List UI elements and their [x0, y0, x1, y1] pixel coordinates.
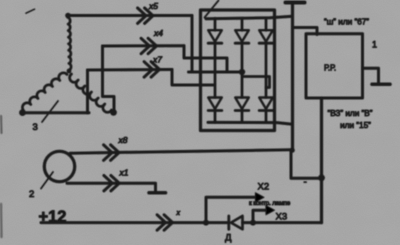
wire x4 vertical to phase C end: [103, 46, 115, 111]
wire VZ terminal vertical: [320, 98, 323, 223]
wire star baseline from phase B end: [23, 111, 90, 114]
wire drop to VZ junction: [291, 150, 322, 178]
wire rectifier negative bottom bus: [208, 122, 293, 124]
voltage regulator box: [306, 34, 363, 98]
wire bottom stem x=242: [241, 111, 244, 123]
svg-text:x: x: [176, 210, 181, 217]
terminal bar at top (output): [286, 1, 305, 5]
connector x5 chevrons: [138, 8, 146, 23]
wire x5 vertical drop: [191, 16, 194, 73]
wire x5 horizontal from stator top: [68, 14, 192, 17]
arrow X2: [255, 193, 264, 202]
diode VD bottom (column x=242): [235, 98, 249, 109]
wire x4 horizontal: [103, 44, 185, 47]
wire rectifier positive top bus: [206, 16, 293, 19]
svg-text:3: 3: [33, 122, 38, 133]
svg-text:к контр. лампе: к контр. лампе: [249, 200, 291, 207]
connector x chevrons on +12 rail: [157, 215, 165, 230]
node phase B end terminal: [19, 109, 26, 116]
svg-text:x5: x5: [148, 1, 158, 11]
node VZ junction: [318, 174, 325, 181]
svg-text:Р.Р.: Р.Р.: [324, 64, 336, 73]
node phase C end terminal: [110, 109, 117, 116]
diode VD top (column x=266): [259, 30, 273, 41]
stator winding phase A (top coil): [68, 18, 71, 71]
connector x7 chevrons: [144, 62, 152, 77]
svg-text:“ВЗ” или “В”: “ВЗ” или “В”: [328, 109, 373, 118]
node stator top junction: [65, 13, 71, 19]
svg-text:x8: x8: [118, 135, 128, 145]
label 2 leader: [41, 172, 53, 189]
diode VD bottom (column x=215): [208, 98, 222, 109]
wire X3 branch: [253, 210, 267, 222]
svg-text:“ш” или “67”: “ш” или “67”: [324, 18, 369, 27]
wire link to right diode column: [243, 77, 270, 88]
wire x1 from rotor to ground: [67, 183, 156, 192]
svg-text:Д: Д: [225, 233, 232, 244]
node x8 / Sh junction: [290, 148, 295, 153]
svg-text:2: 2: [29, 189, 34, 200]
wire diode column x=215: [214, 43, 217, 97]
wire x4 staircase to rectifier: [184, 46, 227, 72]
node X2 branch junction: [203, 220, 209, 226]
stator winding phase B (left coil): [22, 73, 67, 111]
wire top bus stub at x=266: [265, 18, 268, 30]
ground symbol (x1): [149, 191, 166, 195]
wire regulator ground stub: [363, 68, 379, 83]
wire main vertical bus: [291, 3, 294, 151]
wire x7 riser from star baseline: [86, 70, 89, 113]
svg-text:x4: x4: [153, 28, 163, 38]
svg-text:X3: X3: [276, 212, 288, 223]
diode D triangle: [231, 216, 243, 229]
svg-text:X2: X2: [258, 182, 270, 193]
rotor (field winding) circle: [44, 151, 74, 181]
diode VD top (column x=242): [235, 30, 249, 41]
rectifier leader slash: [205, 1, 219, 18]
wire diode column x=242: [241, 43, 244, 97]
stray pen mark top-left: [26, 9, 35, 13]
svg-text:1: 1: [372, 40, 377, 50]
svg-text:x1: x1: [119, 168, 129, 178]
wire +12 rail left: [41, 221, 229, 224]
wire phase bus into rectifier (to middle diode column): [189, 71, 243, 74]
diode VD top (column x=215): [208, 30, 222, 41]
label 3 leader slash: [42, 101, 58, 122]
wire X2 branch: [206, 197, 257, 222]
wire top bus stub at x=242: [241, 18, 244, 30]
arrow X3: [266, 206, 275, 215]
diode VD bottom (column x=266): [259, 98, 273, 109]
wire top bus stub at x=215: [214, 18, 217, 30]
connector x4 chevrons: [141, 38, 149, 53]
wire bottom stem x=215: [214, 111, 217, 123]
svg-text:x7: x7: [152, 55, 162, 65]
ground symbol (regulator): [372, 83, 390, 87]
svg-text:-: -: [304, 177, 307, 188]
rectifier block outline: [201, 10, 275, 131]
connector x8 chevrons: [104, 145, 112, 160]
node X3 branch junction: [250, 220, 256, 226]
svg-text:или “15”: или “15”: [340, 121, 371, 130]
diode D cathode bar: [227, 216, 230, 229]
wire branch to regulator Sh terminal: [293, 28, 318, 35]
connector x1 chevrons: [104, 176, 112, 191]
node phase tap middle column: [239, 69, 245, 75]
scan artifact left edge lower: [0, 204, 3, 237]
wire x8 from rotor to regulator net: [70, 150, 293, 153]
wire diode column x=266: [265, 43, 268, 97]
scan artifact left edge upper: [0, 116, 3, 133]
wire x7 horizontal: [88, 68, 173, 72]
node stator neutral point: [67, 69, 72, 74]
wire x7 jog into rectifier (to left diode column): [172, 70, 214, 86]
wire +12 rail right: [243, 221, 322, 224]
wire bottom stem x=266: [265, 111, 268, 123]
stator winding phase C (right coil): [70, 74, 112, 112]
